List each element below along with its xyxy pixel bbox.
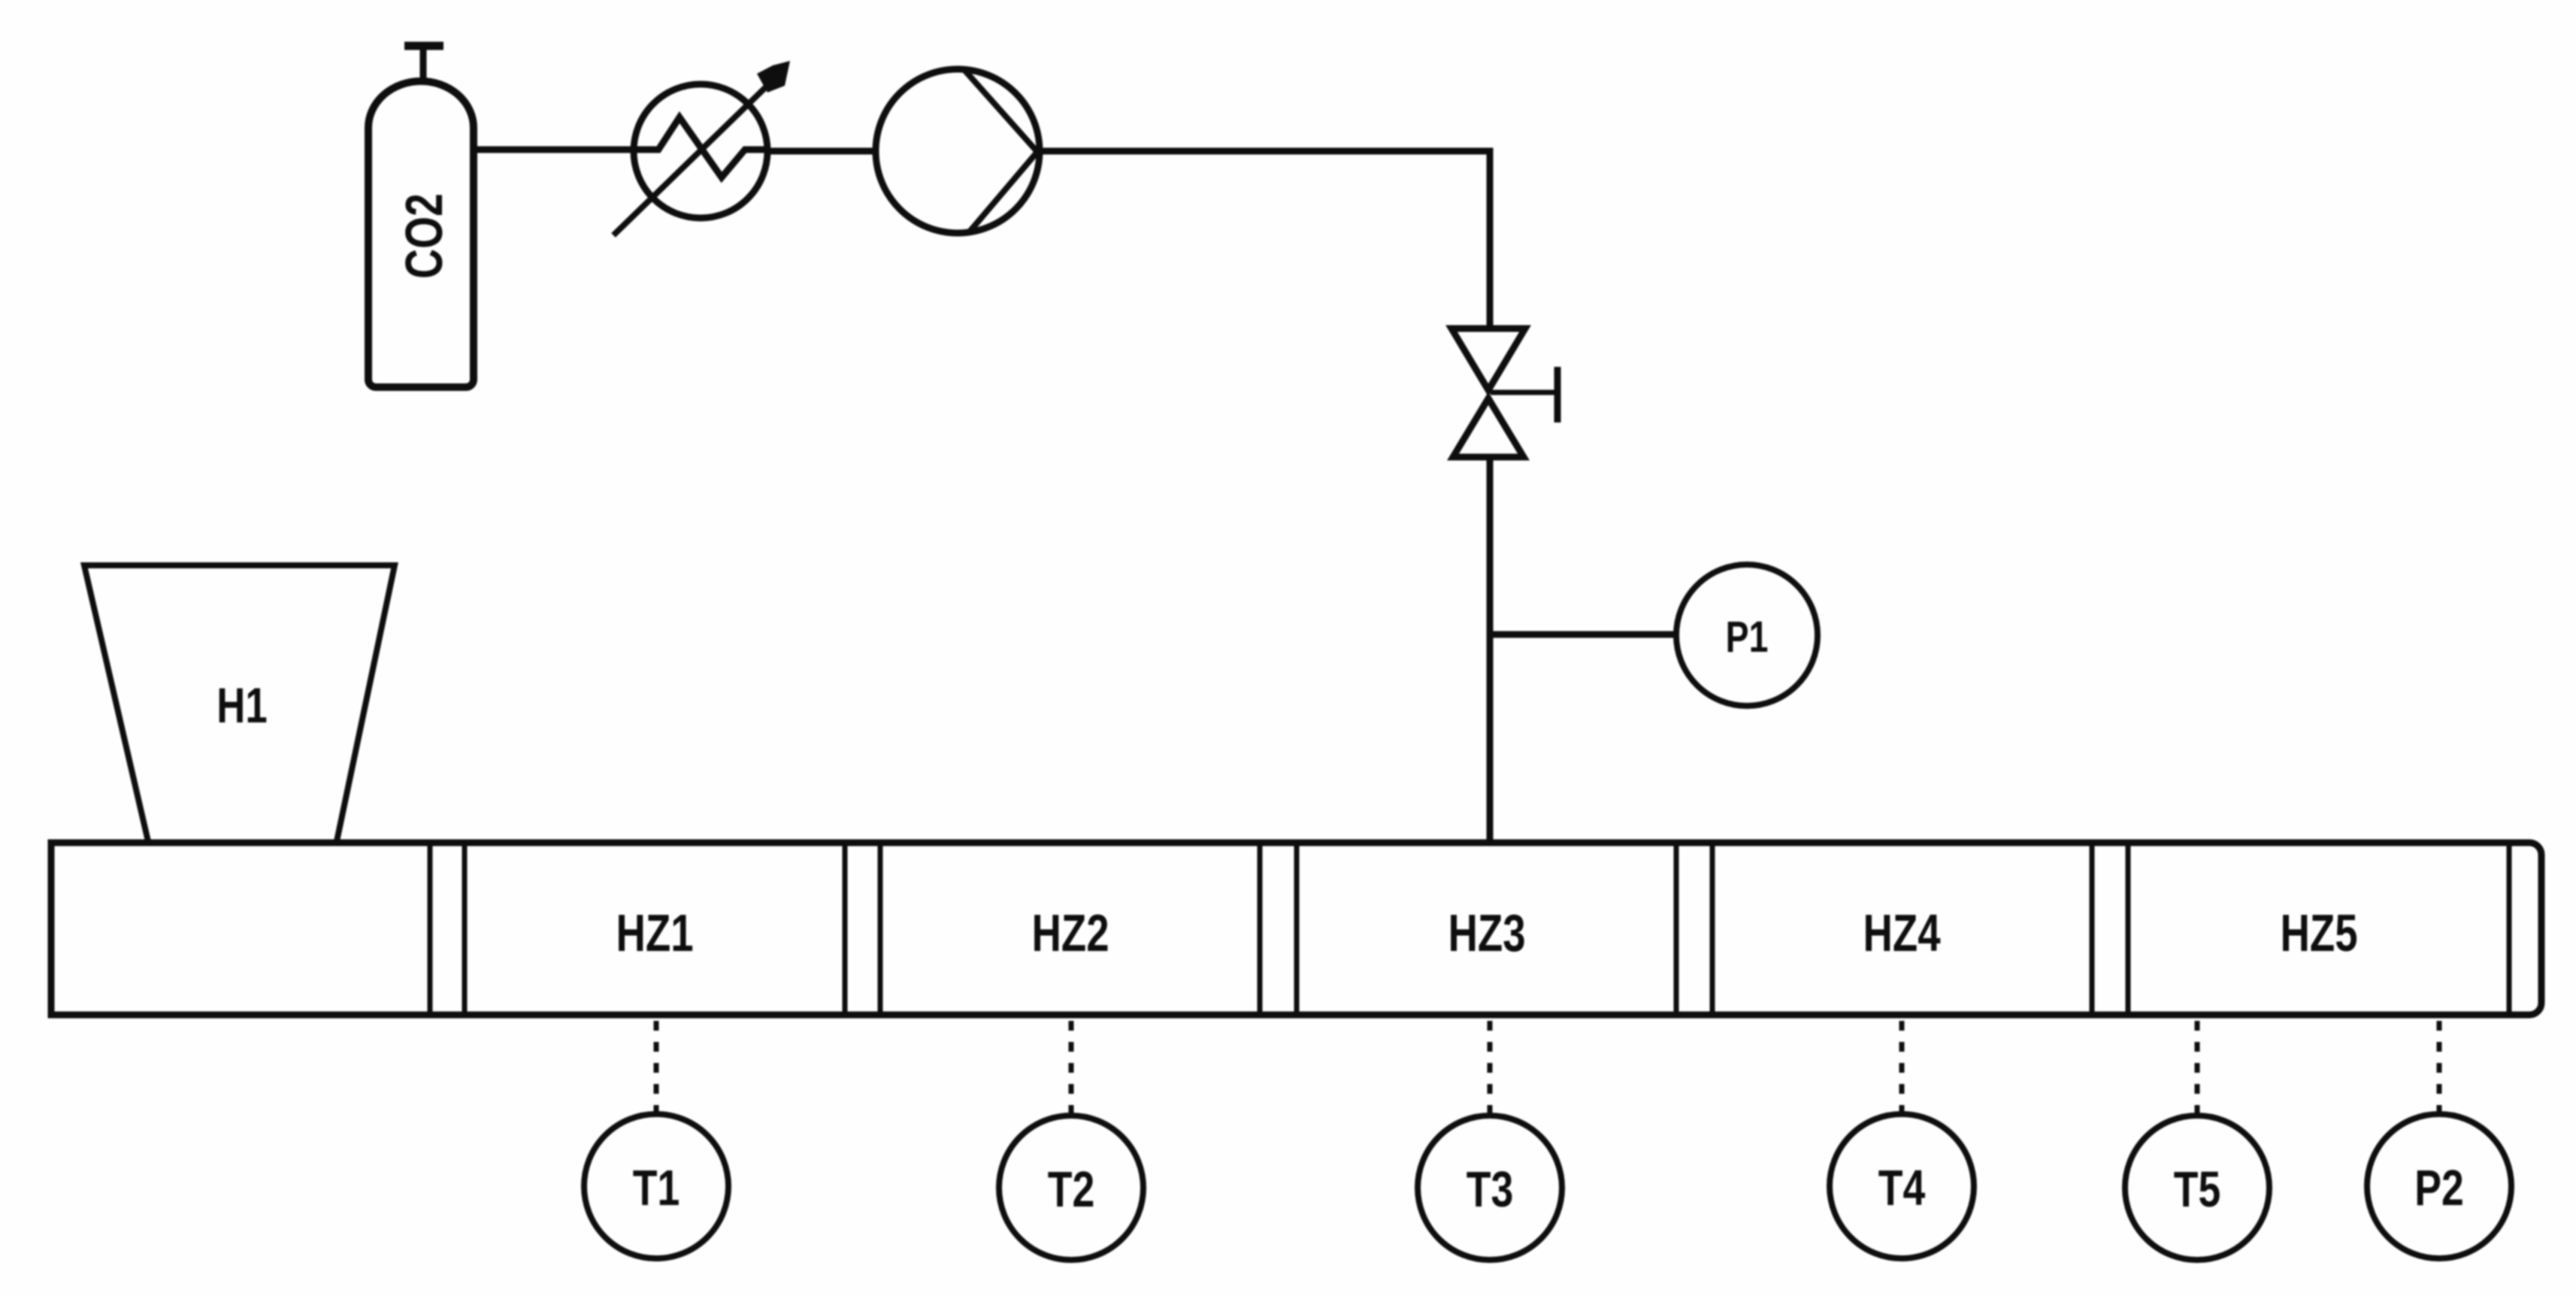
barrel separator line a2 (462, 846, 468, 1012)
svg-text:T3: T3 (1467, 1161, 1514, 1217)
svg-text:HZ2: HZ2 (1031, 904, 1109, 963)
valve V1 upper triangle (1451, 329, 1525, 390)
valve V1 handle bar (1554, 367, 1561, 422)
svg-text:T1: T1 (633, 1159, 680, 1216)
pressure gauge P1 circle (1676, 565, 1818, 706)
dashed line to P2 (2437, 1021, 2442, 1114)
sensor T2 circle (999, 1116, 1143, 1260)
heat exchanger E1 arrowhead (757, 61, 790, 92)
valve V1 handle stem (1491, 390, 1557, 395)
barrel separator line a1 (428, 846, 433, 1012)
svg-text:HZ5: HZ5 (2280, 904, 2357, 963)
wire cylinder to heat exchanger (474, 147, 637, 153)
svg-text:P1: P1 (1726, 613, 1769, 662)
svg-text:CO2: CO2 (395, 193, 454, 279)
svg-text:HZ4: HZ4 (1863, 904, 1940, 963)
dashed line to T3 (1488, 1021, 1493, 1116)
sensor P2 circle (2367, 1114, 2511, 1258)
CO2 cylinder valve stem (420, 47, 427, 84)
pump PU1 triangle lower chord (970, 152, 1037, 232)
heat exchanger E1 zigzag coil (634, 117, 767, 177)
barrel separator line b1 (843, 846, 848, 1012)
sensor T5 circle (2125, 1116, 2269, 1260)
dashed line to T4 (1899, 1021, 1905, 1114)
hopper H1 (84, 565, 395, 841)
heat exchanger E1 control arrow line (613, 79, 774, 235)
dashed line to T5 (2195, 1021, 2200, 1116)
CO2 cylinder valve top bar (404, 42, 443, 50)
svg-text:T2: T2 (1048, 1161, 1095, 1217)
pump PU1 triangle upper chord (964, 69, 1037, 152)
barrel separator line c2 (1294, 846, 1300, 1012)
sensor T1 circle (584, 1114, 728, 1258)
extruder barrel outline (51, 843, 2541, 1015)
dashed line to T1 (654, 1021, 659, 1114)
heat exchanger E1 circle (634, 84, 767, 218)
svg-text:T4: T4 (1878, 1159, 1926, 1216)
wire heat exchanger to pump (767, 148, 877, 155)
svg-text:H1: H1 (216, 677, 267, 733)
pump PU1 circle (876, 69, 1040, 233)
dashed line to T2 (1069, 1021, 1074, 1116)
barrel separator line d2 (1710, 846, 1715, 1012)
wire valve to extruder barrel (1487, 456, 1494, 843)
svg-text:HZ1: HZ1 (616, 904, 693, 963)
barrel separator line c1 (1258, 846, 1263, 1012)
barrel separator line e2 (2126, 846, 2131, 1012)
svg-text:T5: T5 (2174, 1161, 2221, 1217)
svg-text:HZ3: HZ3 (1448, 904, 1525, 963)
sensor T4 circle (1830, 1114, 1974, 1258)
barrel separator line d1 (1674, 846, 1679, 1012)
CO2 cylinder body (368, 81, 474, 387)
barrel separator line e1 (2090, 846, 2095, 1012)
barrel separator line b2 (878, 846, 883, 1012)
svg-text:P2: P2 (2414, 1159, 2464, 1216)
wire pump to corner (1040, 151, 1490, 332)
sensor T3 circle (1418, 1116, 1562, 1260)
barrel end cap line (2507, 846, 2512, 1012)
wire branch to P1 gauge (1490, 631, 1677, 638)
valve V1 lower triangle (1453, 398, 1524, 457)
